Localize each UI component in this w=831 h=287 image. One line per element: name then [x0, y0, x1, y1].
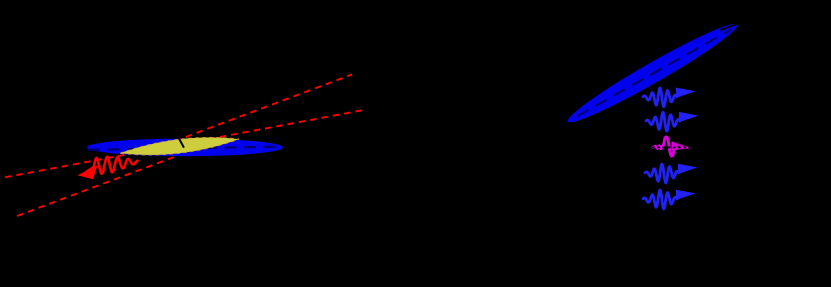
optic axis (left, dark dashed) [88, 147, 282, 150]
wavelet 2 (blue) [646, 112, 699, 131]
red arrowhead (left) [78, 165, 98, 179]
tilted pulse front (yellow lens) [120, 137, 239, 155]
wavelet 4 (blue) [645, 164, 698, 183]
gold dashed outline of pulse front [120, 137, 239, 155]
red dashed beam line: incoming lower beam [17, 147, 202, 217]
THz wave tail to arrowhead [87, 167, 94, 171]
axis dashed line (dark) [577, 30, 731, 117]
wavelet 5 (blue) [643, 190, 696, 209]
wavelet 1 (blue) [643, 88, 696, 107]
pump ellipse (left, blue) [87, 139, 283, 157]
black arrowhead notch at tip [720, 23, 739, 30]
black tick (propagation mark) [176, 133, 184, 147]
red dashed beam line: displaced outgoing beam [175, 75, 352, 142]
black dashed zero line over magenta pulse [652, 146, 693, 148]
magenta arrowhead [672, 141, 693, 150]
THz single-cycle pulse (magenta) [653, 137, 681, 156]
THz wave (red squiggle) [94, 157, 138, 174]
tilted pulse-front ellipse (right, big blue) [563, 16, 742, 130]
magenta baseline tail [680, 146, 689, 148]
red dashed beam line: crossing shallow line [5, 110, 362, 177]
